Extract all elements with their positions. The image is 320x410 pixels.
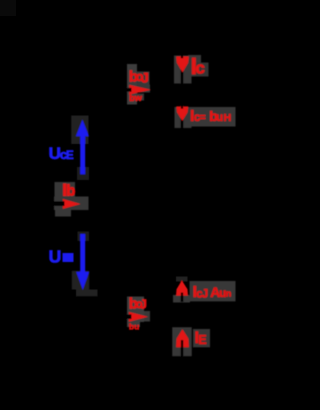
label subscript under arrow B1 xyxy=(129,321,139,331)
label U_CB xyxy=(49,144,74,163)
halo behind label I_C xyxy=(188,55,209,77)
svg-text:J: J xyxy=(202,288,208,300)
halo behind voltage arrowhead U_CB xyxy=(71,116,88,145)
label I_E xyxy=(195,329,207,347)
halo at U_CB arrow tail xyxy=(77,167,89,180)
voltage arrow U_BE (points down) xyxy=(76,234,89,290)
halo behind formula I_E = I_C + I_B xyxy=(190,281,236,301)
svg-text:J: J xyxy=(141,70,149,85)
wire collector segment xyxy=(181,104,184,128)
svg-text:J: J xyxy=(140,297,147,312)
current arrow into node B1 xyxy=(129,312,148,322)
svg-text:H: H xyxy=(224,112,232,124)
corner artifact xyxy=(0,0,16,16)
wire into node B2 xyxy=(123,88,132,92)
label I_B2 xyxy=(129,68,149,85)
svg-text:c: c xyxy=(195,59,204,78)
label formula I_C + I_B xyxy=(193,284,232,301)
wire base xyxy=(52,201,65,206)
halo behind emitter formula arrowhead xyxy=(173,277,190,303)
label formula I_C = B * I_B xyxy=(190,108,231,125)
halo behind label I_B2 xyxy=(137,72,151,101)
halo behind formula I_C = B * I_B xyxy=(188,107,236,127)
halo behind collector current arrowhead xyxy=(174,56,192,84)
current arrow into node B2 xyxy=(129,85,151,95)
svg-text:bu: bu xyxy=(129,321,139,331)
halo at U_BE arrow tail xyxy=(78,232,90,242)
current arrow I_B xyxy=(63,199,81,209)
svg-text:b: b xyxy=(66,183,75,200)
svg-text:E: E xyxy=(198,333,206,347)
halo behind formula arrowhead xyxy=(175,107,192,128)
label U_BE xyxy=(49,247,74,267)
current arrow I_C xyxy=(176,54,189,72)
svg-text:=: = xyxy=(200,111,206,123)
label I_C xyxy=(191,53,205,79)
halo behind label I_B xyxy=(54,182,89,217)
halo behind label I_E xyxy=(193,329,210,347)
current arrow on emitter (formula row, points up) xyxy=(176,280,188,301)
wire into node B1 xyxy=(121,314,132,319)
label subscript under arrow B2 xyxy=(129,93,142,103)
wire emitter xyxy=(181,340,184,357)
label I_B1 xyxy=(129,296,147,312)
svg-text:u: u xyxy=(216,112,223,124)
halo behind emitter current arrowhead xyxy=(172,327,192,356)
wire emitter segment xyxy=(181,281,184,302)
svg-text:n: n xyxy=(226,289,232,299)
current arrow on collector (formula row) xyxy=(176,104,188,121)
svg-text:U: U xyxy=(49,247,62,267)
halo column node B1 xyxy=(127,297,150,328)
svg-text:E: E xyxy=(66,150,74,162)
voltage arrow U_CB (points up) xyxy=(76,120,89,175)
svg-text:bw: bw xyxy=(129,93,142,103)
wire collector xyxy=(181,50,184,84)
halo column node B2 xyxy=(127,64,137,105)
label I_B xyxy=(62,181,75,200)
halo behind voltage arrowhead U_BE xyxy=(72,271,98,296)
current arrow I_E (points up) xyxy=(176,329,189,352)
